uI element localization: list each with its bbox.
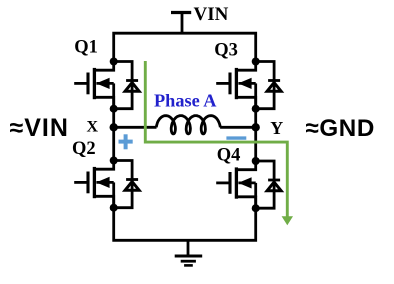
wire: bottom ground rail bbox=[114, 196, 256, 240]
body diode of Q3 bbox=[256, 62, 281, 109]
svg-text:≈GND: ≈GND bbox=[306, 115, 375, 142]
wire: right rail Q3 source to Q4 drain (node Y) bbox=[254, 97, 257, 160]
body diode of Q4 bbox=[256, 161, 281, 208]
wire: inductor to Y bbox=[220, 126, 256, 129]
drain junction dot Q2 bbox=[110, 157, 118, 165]
VIN supply symbol bbox=[171, 13, 191, 34]
svg-text:≈VIN: ≈VIN bbox=[10, 114, 69, 142]
wire: top VIN rail bbox=[114, 33, 256, 61]
svg-text:Y: Y bbox=[270, 118, 283, 138]
body diode of Q1 bbox=[114, 62, 139, 109]
drain junction dot Q1 bbox=[110, 58, 118, 66]
drain junction dot Q3 bbox=[252, 58, 260, 66]
source junction dot Q3 bbox=[252, 105, 260, 113]
inductor Phase A bbox=[156, 116, 220, 134]
wire: left rail Q1 source to Q2 drain (node X) bbox=[112, 97, 115, 160]
svg-text:Q1: Q1 bbox=[74, 38, 98, 58]
source junction dot Q1 bbox=[110, 105, 118, 113]
polarity plus (node X side) bbox=[119, 134, 133, 149]
svg-text:Q3: Q3 bbox=[214, 41, 238, 61]
svg-text:Phase A: Phase A bbox=[154, 91, 217, 111]
node Y dot bbox=[252, 123, 260, 131]
svg-text:Q4: Q4 bbox=[217, 146, 241, 166]
svg-text:X: X bbox=[87, 119, 99, 136]
svg-text:Q2: Q2 bbox=[72, 139, 96, 159]
drain junction dot Q4 bbox=[252, 157, 260, 165]
transistor Q2 (NMOS) bbox=[74, 161, 114, 208]
polarity minus (node Y side) bbox=[226, 136, 246, 139]
svg-text:VIN: VIN bbox=[194, 4, 229, 25]
current path arrow (green) bbox=[145, 61, 293, 225]
source junction dot Q2 bbox=[110, 204, 118, 212]
body diode of Q2 bbox=[114, 161, 139, 208]
node X dot bbox=[110, 123, 118, 131]
transistor Q3 (NMOS) bbox=[216, 62, 256, 109]
transistor Q4 (NMOS) bbox=[216, 161, 256, 208]
wire: phase leg X to inductor bbox=[114, 126, 157, 129]
source junction dot Q4 bbox=[252, 204, 260, 212]
ground symbol bbox=[175, 240, 203, 265]
transistor Q1 (NMOS) bbox=[74, 62, 114, 109]
